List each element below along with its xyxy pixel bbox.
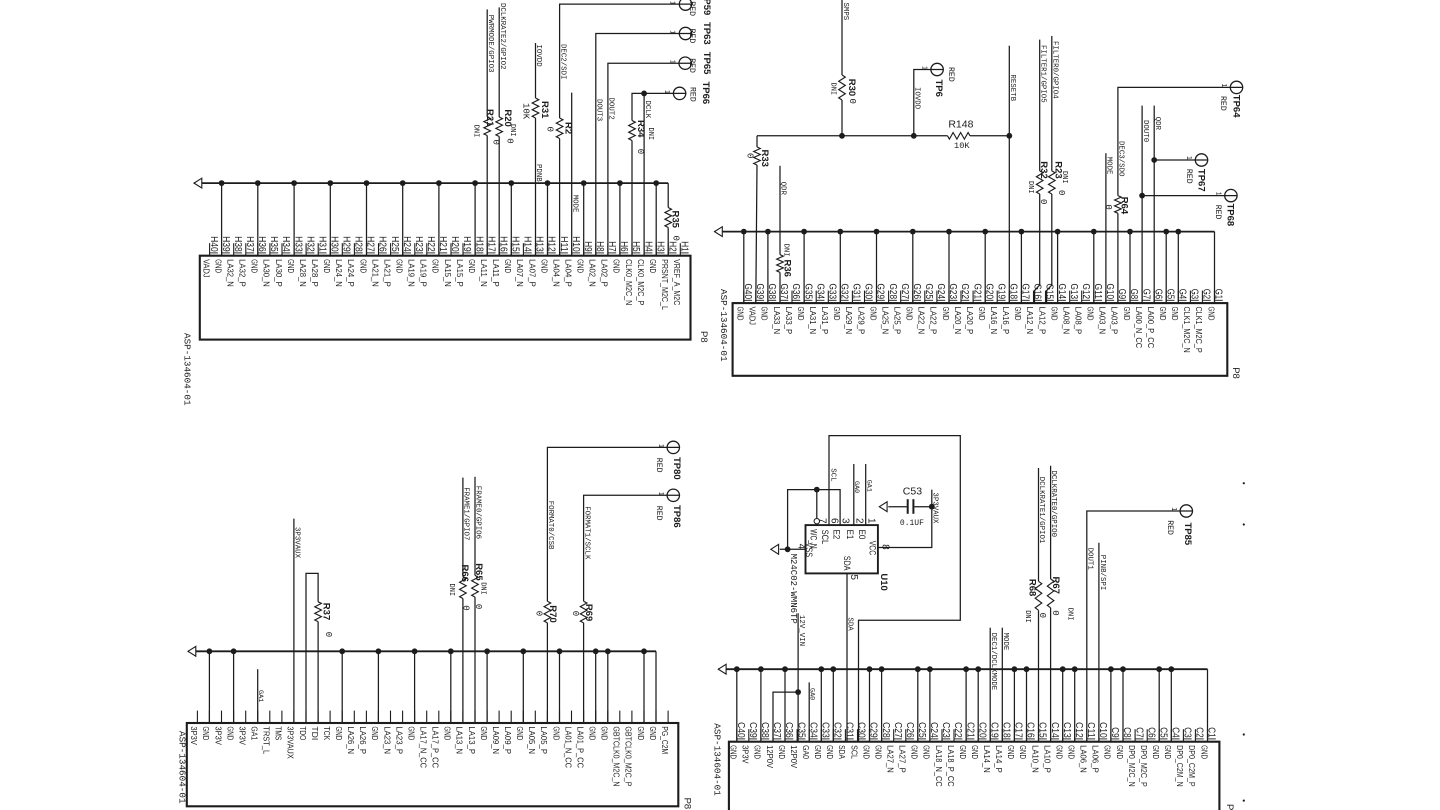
junction H21: [436, 180, 442, 186]
wire GND pin G23 to bus: [948, 232, 950, 304]
pin D30 TDI: [310, 711, 320, 741]
sheet tick dot: [1243, 800, 1245, 802]
junction C9: [1108, 666, 1114, 672]
pin H14 LA07_N: [515, 236, 532, 287]
pin D12 LA05_N: [527, 711, 537, 755]
wire bus corner to pin G1: [1214, 232, 1216, 304]
svg-text:LA15_P: LA15_P: [455, 259, 465, 287]
junction G6/TP67: [1151, 157, 1157, 163]
svg-text:QDR: QDR: [1153, 117, 1161, 131]
junction D13: [520, 648, 526, 654]
pin G36 LA33_P: [784, 284, 801, 335]
svg-text:0: 0: [534, 611, 544, 616]
pin C24 GND: [922, 722, 939, 759]
svg-text:LA27_P: LA27_P: [898, 745, 908, 773]
pin C30 SCL: [849, 722, 866, 759]
pin C4 GND: [1163, 727, 1180, 759]
resistor R68 (DNI): [1027, 579, 1042, 610]
svg-text:DP0_C2M_P: DP0_C2M_P: [1187, 745, 1197, 787]
pin G32 GND: [832, 284, 849, 321]
pin C14 LA10_P: [1042, 722, 1059, 773]
svg-text:C32: C32: [832, 722, 843, 738]
svg-text:LA11_N: LA11_N: [479, 259, 489, 287]
svg-text:LA17_P_CC: LA17_P_CC: [431, 726, 441, 768]
svg-text:GND: GND: [213, 259, 223, 273]
svg-text:H34: H34: [280, 236, 291, 252]
wire GND pin H33 to bus: [293, 183, 295, 256]
svg-text:G1: G1: [1213, 289, 1224, 300]
wire GND pin D10 to bus: [559, 651, 561, 723]
svg-text:TP6: TP6: [933, 80, 944, 97]
svg-text:G16: G16: [1032, 284, 1043, 300]
svg-text:LA28_P: LA28_P: [310, 259, 320, 287]
svg-text:H27: H27: [365, 236, 376, 252]
svg-text:DEC2/SDI: DEC2/SDI: [558, 44, 566, 79]
wire GND pin C36 to bus: [784, 669, 786, 742]
resistor R30 (DNI): [839, 75, 857, 100]
test point TP65: [679, 52, 712, 75]
resistor R23 (DNI): [1049, 161, 1064, 194]
pin C33 GND: [813, 722, 830, 759]
wire junction to resistor R34 / pin H5: [632, 93, 644, 120]
svg-text:3P3VAUX: 3P3VAUX: [293, 527, 301, 559]
pin C34 GA0: [801, 722, 818, 759]
wire GND pin C29 to bus: [869, 669, 871, 742]
pin G16 LA12_N: [1025, 284, 1043, 335]
wire GND pin C17 to bus: [1013, 669, 1015, 742]
svg-text:SCL: SCL: [849, 745, 859, 759]
svg-text:H18: H18: [473, 236, 484, 252]
svg-text:TMS: TMS: [274, 726, 284, 740]
junction G32: [837, 229, 843, 235]
junction VSS tie: [785, 546, 791, 552]
wire GND pin D25 to bus: [377, 651, 379, 723]
pin G3 CLK1_M2C_N: [1182, 289, 1199, 353]
svg-text:GND: GND: [970, 745, 980, 759]
ground bus arrow (row H): [194, 178, 202, 188]
svg-text:H20: H20: [449, 236, 460, 252]
wire G10 net MODE: [1105, 153, 1107, 303]
wire GND pin H30 to bus: [329, 183, 331, 256]
svg-text:LA10_P: LA10_P: [1042, 745, 1052, 773]
ground bus arrow (row C): [718, 664, 726, 674]
svg-text:G39: G39: [754, 284, 765, 300]
svg-text:LA23_P: LA23_P: [394, 726, 404, 754]
junction C21: [963, 666, 969, 672]
pin D10 GND: [551, 711, 561, 741]
svg-text:DNI: DNI: [781, 244, 789, 257]
pin H19 LA15_P: [455, 236, 472, 287]
pin G37 LA33_N: [772, 284, 789, 335]
pin H3 GND: [648, 241, 665, 273]
pin D15 LA09_N: [491, 711, 501, 755]
svg-text:1: 1: [657, 492, 664, 496]
pin H12 GND: [539, 236, 556, 273]
svg-text:DNI: DNI: [508, 124, 516, 137]
svg-text:PG_C2M: PG_C2M: [660, 726, 670, 754]
junction RESETB: [1006, 133, 1012, 139]
svg-text:1: 1: [657, 444, 664, 448]
pin C31 SDA: [837, 722, 854, 759]
pin H32 LA28_N: [298, 236, 315, 287]
svg-text:GND: GND: [873, 745, 883, 759]
svg-text:GND: GND: [753, 745, 763, 759]
svg-text:TP67: TP67: [1196, 169, 1207, 192]
svg-text:TP85: TP85: [1182, 523, 1193, 546]
svg-text:GA0: GA0: [852, 481, 860, 493]
svg-text:FORMAT0/CSB: FORMAT0/CSB: [546, 501, 554, 550]
pin G13 LA08_N: [1062, 284, 1079, 335]
pin C18 LA14_P: [994, 722, 1011, 773]
pin H18 GND: [467, 236, 484, 273]
pin G6 LA00_P_CC: [1146, 289, 1163, 348]
pin G19 LA16_N: [989, 284, 1006, 335]
svg-text:DOUT2: DOUT2: [607, 98, 615, 120]
svg-text:DOUT3: DOUT3: [595, 99, 603, 121]
svg-text:SMPS: SMPS: [841, 3, 849, 21]
svg-text:CLK0_M2C_P: CLK0_M2C_P: [636, 259, 646, 305]
pin H34 LA30_P: [274, 236, 291, 287]
svg-text:LA07_P: LA07_P: [527, 259, 537, 287]
wire net RESETB to pin G18: [1008, 46, 1010, 303]
svg-text:10K: 10K: [954, 141, 970, 151]
svg-text:GND: GND: [1206, 307, 1216, 321]
svg-text:H35: H35: [268, 236, 279, 252]
svg-text:GND: GND: [777, 745, 787, 759]
pin C25 GND: [910, 722, 927, 759]
pin D3 GND: [636, 711, 646, 741]
svg-text:3P3V: 3P3V: [741, 745, 751, 764]
pin H8 LA02_N: [588, 241, 605, 287]
svg-text:SDA: SDA: [846, 617, 854, 631]
svg-text:H24: H24: [401, 236, 412, 252]
pin G33 LA31_P: [820, 284, 837, 335]
pin H37 LA32_P: [238, 236, 255, 287]
resistor R65 (DNI): [472, 563, 484, 597]
svg-text:LA33_P: LA33_P: [784, 307, 794, 335]
svg-text:LA01_P_CC: LA01_P_CC: [575, 726, 585, 768]
svg-text:R69: R69: [583, 604, 594, 621]
junction H33: [291, 180, 297, 186]
resistor R35: [665, 208, 681, 229]
pin G40 GND: [736, 284, 753, 321]
pin G27 LA25_P: [893, 284, 910, 335]
wire GND pin G14 to bus: [1057, 232, 1059, 304]
junction 12P0V tie: [795, 689, 801, 695]
resistor R66 (DNI): [459, 565, 470, 599]
junction C13: [1060, 666, 1066, 672]
svg-text:GND: GND: [551, 726, 561, 740]
junction H4/TP66/R34: [641, 91, 647, 97]
svg-text:LA30_N: LA30_N: [262, 259, 272, 287]
svg-text:LA13_P: LA13_P: [467, 726, 477, 754]
junction C5: [1156, 666, 1162, 672]
svg-text:LA22_P: LA22_P: [929, 307, 939, 335]
svg-text:GND: GND: [1163, 745, 1173, 759]
pin C21 GND: [958, 722, 975, 759]
svg-text:ASP-134604-01: ASP-134604-01: [182, 333, 193, 406]
svg-text:MODE: MODE: [570, 195, 578, 213]
pin C19 LA14_N: [982, 722, 999, 773]
svg-text:C8: C8: [1121, 727, 1132, 738]
pin D40 3P3V: [189, 711, 199, 746]
junction G35: [801, 229, 807, 235]
svg-text:RED: RED: [1184, 169, 1193, 184]
svg-text:RED: RED: [1165, 520, 1174, 535]
svg-text:GND: GND: [443, 726, 453, 740]
junction D19: [448, 648, 454, 654]
svg-text:C19: C19: [988, 722, 999, 738]
pin C38 GND: [753, 722, 770, 759]
svg-text:DP0_M2C_P: DP0_M2C_P: [1139, 745, 1149, 787]
wire GND pin C33 to bus: [820, 669, 822, 742]
junction G23: [946, 229, 952, 235]
svg-text:GND: GND: [286, 259, 296, 273]
wire TP67: [1154, 159, 1207, 161]
svg-text:VREF_A_M2C: VREF_A_M2C: [672, 259, 682, 305]
pin H15 GND: [503, 236, 520, 273]
svg-text:10K: 10K: [521, 103, 531, 120]
wire C14 net DCLKRATE0/GPIO0: [1050, 466, 1052, 579]
svg-text:0: 0: [1038, 199, 1048, 204]
pin D24 LA23_N: [382, 711, 392, 755]
svg-text:H32: H32: [304, 236, 315, 252]
wire C18 net MODE: [1001, 628, 1003, 742]
wire GND pin H3 to bus: [655, 183, 657, 256]
wire H8 net DOUT3 to TP63: [596, 34, 692, 256]
svg-text:1: 1: [921, 66, 928, 70]
svg-text:G22: G22: [959, 284, 970, 300]
svg-text:H25: H25: [389, 236, 400, 252]
svg-text:R30: R30: [846, 79, 857, 96]
resistor R33: [754, 147, 770, 167]
svg-text:C40: C40: [735, 722, 746, 738]
pin H16 LA11_P: [491, 236, 508, 287]
pin D28 GND: [334, 711, 344, 741]
svg-text:LA18_P_CC: LA18_P_CC: [946, 745, 956, 787]
svg-text:H22: H22: [425, 236, 436, 252]
wire H4 net DCLK to TP66: [644, 93, 686, 255]
svg-text:GND: GND: [813, 745, 823, 759]
svg-text:LA02_P: LA02_P: [600, 259, 610, 287]
svg-text:C28: C28: [880, 722, 891, 738]
pin D8 LA01_P_CC: [575, 711, 585, 768]
svg-text:12P0V: 12P0V: [765, 745, 775, 768]
svg-text:GND: GND: [358, 259, 368, 273]
svg-text:G8: G8: [1128, 289, 1139, 300]
pin H22 LA19_P: [419, 236, 436, 287]
svg-text:G24: G24: [935, 284, 946, 300]
wire GND pin H27 to bus: [366, 183, 368, 256]
svg-text:DCLKRATE2/GPIO2: DCLKRATE2/GPIO2: [498, 3, 506, 70]
junction H6: [617, 180, 623, 186]
svg-text:DCLKRATE0/GPIO0: DCLKRATE0/GPIO0: [1049, 471, 1057, 538]
svg-text:LA32_P: LA32_P: [238, 259, 248, 287]
svg-text:0: 0: [570, 611, 580, 616]
svg-text:GND: GND: [1199, 745, 1209, 759]
svg-text:G29: G29: [875, 284, 886, 300]
wire GND pin G40 to bus: [743, 232, 745, 304]
pin D31 TDO: [298, 711, 308, 741]
svg-text:GND: GND: [1018, 745, 1028, 759]
svg-text:LA09_N: LA09_N: [491, 726, 501, 754]
wire GND pin H39 to bus: [221, 183, 223, 256]
svg-text:RED: RED: [654, 458, 663, 473]
junction C36: [782, 666, 788, 672]
svg-text:LA17_N_CC: LA17_N_CC: [419, 726, 429, 768]
pin H2 PRSNT_M2C_L: [660, 241, 677, 310]
svg-text:GND: GND: [539, 259, 549, 273]
pin H28 LA24_P: [346, 236, 363, 287]
svg-text:TP66: TP66: [700, 82, 711, 105]
svg-text:IOVDD: IOVDD: [534, 45, 542, 68]
wire GND pin H21 to bus: [438, 183, 440, 256]
svg-text:G40: G40: [742, 284, 753, 300]
wire GND pin C25 to bus: [917, 669, 919, 742]
svg-text:GND: GND: [431, 259, 441, 273]
svg-text:G30: G30: [863, 284, 874, 300]
svg-text:GND: GND: [322, 259, 332, 273]
resistor R36 (DNI): [777, 255, 793, 277]
wire GND pin C16 to bus: [1026, 669, 1028, 742]
pin C17 GND: [1006, 722, 1023, 759]
svg-text:0: 0: [847, 99, 857, 104]
junction G26: [910, 229, 916, 235]
svg-text:GND: GND: [861, 745, 871, 759]
pin G4 GND: [1170, 289, 1187, 321]
svg-text:C10: C10: [1097, 722, 1108, 738]
svg-text:6: 6: [829, 518, 840, 524]
svg-text:2: 2: [853, 518, 864, 524]
resistor R148 10K: [948, 119, 974, 140]
svg-text:0: 0: [745, 153, 755, 158]
wire H13 net IOVDD / PDNB: [535, 43, 537, 98]
pin H21 GND: [431, 236, 448, 273]
svg-text:G7: G7: [1140, 289, 1151, 300]
junction G20: [982, 229, 988, 235]
resistor R21 (DNI): [484, 109, 495, 136]
junction C16: [1024, 666, 1030, 672]
wire 12P0V tie C37 to C35: [773, 692, 798, 742]
svg-text:1: 1: [1185, 156, 1192, 160]
ground bus (row G): [715, 231, 1215, 233]
svg-text:G3: G3: [1189, 289, 1200, 300]
svg-text:CLK0_M2C_N: CLK0_M2C_N: [624, 259, 634, 305]
wire GND pin C32 to bus: [832, 669, 834, 742]
stub GA0 (C34): [808, 682, 810, 741]
svg-text:TCK: TCK: [322, 726, 332, 740]
svg-text:C4: C4: [1170, 727, 1181, 738]
wire GND pin H6 to bus: [619, 183, 621, 256]
ground arrow (U10 VSS): [771, 544, 779, 554]
svg-text:G21: G21: [971, 284, 982, 300]
svg-text:3P3V: 3P3V: [213, 726, 223, 745]
svg-text:H39: H39: [220, 236, 231, 252]
wire net GA0 to U10 E1 (pin 2): [853, 464, 855, 525]
wire GND pin D22 to bus: [414, 651, 416, 723]
junction H24: [400, 180, 406, 186]
pin H26 LA21_N: [370, 236, 387, 287]
pin C13 GND: [1055, 722, 1072, 759]
svg-text:VCC: VCC: [868, 541, 878, 556]
pin D19 GND: [443, 711, 453, 741]
junction D10: [557, 648, 563, 654]
wire SCL net: U10 pin 6 to pin C30: [829, 436, 960, 742]
svg-text:3P3V: 3P3V: [189, 726, 199, 745]
svg-text:H7: H7: [606, 241, 617, 252]
svg-text:C2: C2: [1194, 727, 1205, 738]
junction G5: [1163, 229, 1169, 235]
wire GND pin C5 to bus: [1158, 669, 1160, 742]
svg-text:GND: GND: [648, 726, 658, 740]
wire G16 net FILTER1/GPIO5: [1039, 40, 1041, 171]
pin G1 GND: [1206, 289, 1223, 321]
junction C28: [879, 666, 885, 672]
svg-text:LA19_N: LA19_N: [407, 259, 417, 287]
junction IOVDD/TP6: [911, 133, 917, 139]
pin G25 LA22_N: [917, 284, 934, 335]
svg-text:LA05_P: LA05_P: [539, 726, 549, 754]
svg-text:C11: C11: [1085, 722, 1096, 738]
svg-text:GND: GND: [1086, 307, 1096, 321]
svg-text:1: 1: [669, 30, 676, 34]
svg-text:ASP-134604-01: ASP-134604-01: [712, 723, 723, 796]
svg-text:C17: C17: [1013, 722, 1024, 738]
svg-text:G31: G31: [851, 284, 862, 300]
svg-text:LA23_N: LA23_N: [382, 726, 392, 754]
svg-text:GND: GND: [1006, 745, 1016, 759]
svg-text:C30: C30: [856, 722, 867, 738]
pin H35 LA30_N: [262, 236, 279, 287]
svg-text:C33: C33: [820, 722, 831, 738]
svg-text:R70: R70: [547, 605, 558, 622]
sheet tick dot: [1243, 523, 1245, 525]
svg-text:C1: C1: [1206, 727, 1217, 738]
svg-text:DEC1/DCLKMODE: DEC1/DCLKMODE: [989, 633, 997, 691]
svg-text:H40: H40: [208, 236, 219, 252]
svg-text:LA15_N: LA15_N: [443, 259, 453, 287]
svg-text:GA1: GA1: [864, 480, 872, 492]
pin G2 CLK1_M2C_P: [1194, 289, 1211, 353]
junction D28: [339, 648, 345, 654]
junction C53/3P3VAUX: [929, 504, 935, 510]
svg-text:GND: GND: [910, 745, 920, 759]
svg-text:GND: GND: [868, 307, 878, 321]
pin H7 LA02_P: [600, 241, 617, 287]
svg-text:TP68: TP68: [1225, 204, 1236, 227]
wire bus corner to resistor R35 / pin H2: [667, 183, 669, 207]
junction H39: [219, 180, 225, 186]
wire GND pin G20 to bus: [984, 232, 986, 304]
svg-text:GND: GND: [1049, 307, 1059, 321]
wire bus corner to pin C1: [1207, 669, 1209, 742]
svg-text:G32: G32: [839, 284, 850, 300]
pin H36 GND: [250, 236, 267, 273]
pin H11 LA04_N: [551, 236, 568, 287]
pin D37 GND: [225, 711, 235, 741]
test point TP85: [1180, 505, 1193, 546]
svg-text:LA03_P: LA03_P: [1110, 307, 1120, 335]
pin G5 GND: [1158, 289, 1175, 321]
svg-text:GND: GND: [1170, 307, 1180, 321]
svg-text:LA25_N: LA25_N: [880, 307, 890, 335]
svg-text:DNI: DNI: [1026, 181, 1034, 194]
junction H9: [581, 180, 587, 186]
svg-text:GND: GND: [905, 307, 915, 321]
svg-text:R37: R37: [321, 603, 332, 620]
connector P8 row G (Samtec ASP-134604-01): [733, 284, 1228, 376]
svg-text:PRSNT_M2C_L: PRSNT_M2C_L: [660, 259, 670, 310]
